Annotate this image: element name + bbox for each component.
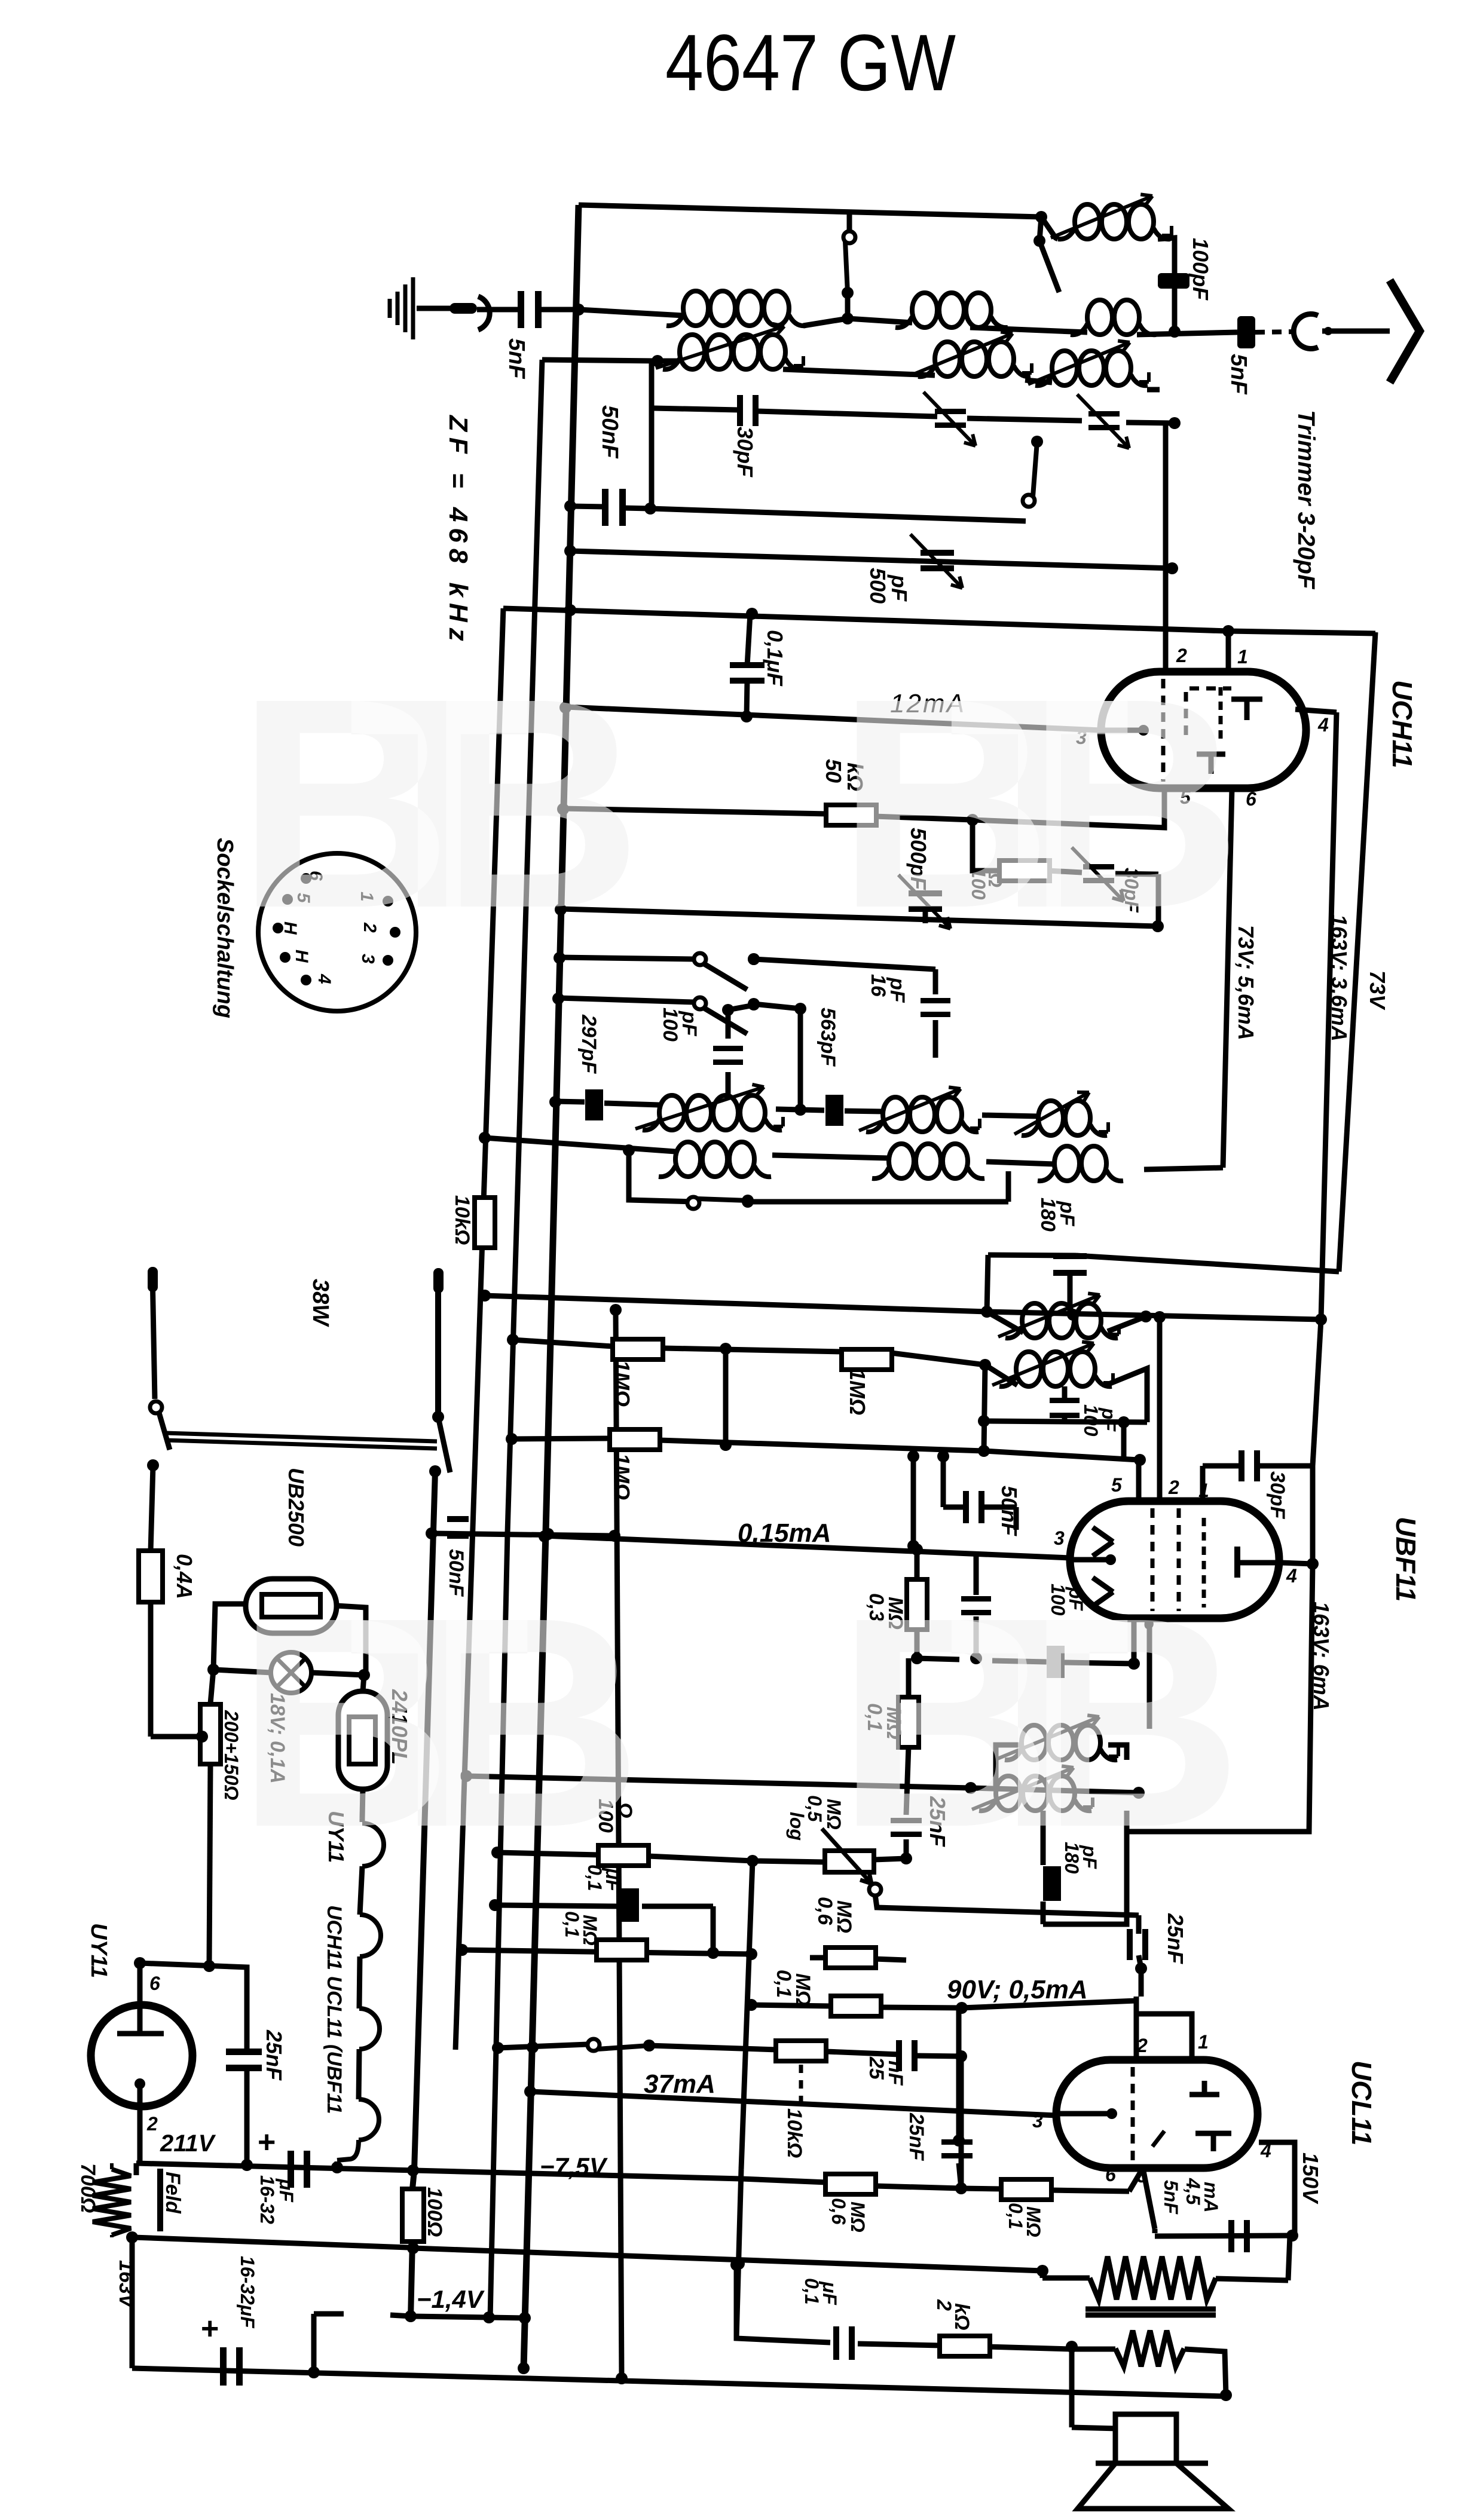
svg-text:163V; 6mA: 163V; 6mA [1309,1602,1334,1711]
svg-text:+: + [200,2311,218,2346]
svg-text:30pF: 30pF [1266,1471,1289,1520]
svg-text:1MΩ: 1MΩ [845,1368,870,1415]
svg-text:UY11: UY11 [86,1923,111,1978]
svg-text:ZF = 468 kHz: ZF = 468 kHz [444,414,473,647]
svg-text:5nF: 5nF [1226,354,1251,395]
svg-text:BTB: BTB [837,636,1232,970]
svg-text:MΩ: MΩ [791,1973,814,2006]
svg-text:163V: 163V [115,2260,137,2310]
svg-text:3: 3 [1054,1527,1065,1549]
svg-text:500: 500 [866,568,890,604]
svg-text:−1,4V: −1,4V [417,2285,485,2313]
svg-text:5nF: 5nF [1160,2180,1182,2215]
svg-text:3: 3 [1032,2110,1043,2132]
svg-text:mA: mA [1200,2182,1222,2213]
svg-text:UCL11: UCL11 [1346,2060,1377,2145]
svg-text:UBF11: UBF11 [1390,1517,1421,1602]
svg-text:211V: 211V [160,2130,216,2157]
svg-text:pF: pF [1056,1201,1078,1227]
svg-text:100Ω: 100Ω [423,2187,446,2237]
svg-text:2: 2 [1136,2035,1148,2056]
svg-text:50nF: 50nF [997,1486,1022,1536]
svg-text:10kΩ: 10kΩ [783,2108,806,2158]
svg-text:5nF: 5nF [504,338,529,379]
svg-text:kΩ: kΩ [950,2303,973,2330]
svg-text:10kΩ: 10kΩ [451,1195,473,1245]
svg-text:MΩ: MΩ [847,2201,869,2233]
svg-text:4: 4 [1317,714,1329,736]
svg-text:MΩ: MΩ [1023,2206,1044,2237]
svg-text:BTB: BTB [237,1555,632,1889]
svg-text:563pF: 563pF [817,1008,839,1067]
svg-text:pF: pF [1098,1407,1120,1432]
svg-text:16-32: 16-32 [256,2175,278,2224]
svg-text:nF: nF [884,2060,907,2086]
svg-text:25nF: 25nF [905,2112,928,2161]
svg-text:1: 1 [1237,646,1248,667]
svg-text:1MΩ: 1MΩ [610,1453,634,1500]
svg-text:μF: μF [819,2281,840,2305]
svg-text:6: 6 [149,1973,160,1994]
svg-text:1MΩ: 1MΩ [610,1360,634,1407]
svg-text:5: 5 [1111,1474,1123,1496]
svg-text:37mA: 37mA [644,2069,715,2099]
svg-text:38W: 38W [308,1279,333,1327]
svg-text:−7,5V: −7,5V [540,2152,608,2181]
svg-text:MΩ: MΩ [833,1900,855,1933]
svg-text:1: 1 [1198,2031,1209,2053]
svg-text:73V; 5,6mA: 73V; 5,6mA [1234,925,1258,1040]
svg-text:pF: pF [678,1011,701,1037]
svg-text:BTB: BTB [237,636,632,970]
svg-text:UB2500: UB2500 [284,1468,308,1547]
svg-text:700Ω: 700Ω [77,2163,99,2213]
svg-text:0,1μF: 0,1μF [763,630,787,687]
svg-text:2: 2 [1168,1477,1179,1498]
svg-text:MΩ: MΩ [579,1915,601,1946]
svg-text:0,6: 0,6 [828,2198,849,2225]
svg-text:Sockelschaltung: Sockelschaltung [212,838,237,1018]
svg-text:log: log [786,1812,808,1841]
svg-text:30pF: 30pF [733,427,757,477]
svg-text:2: 2 [146,2113,158,2135]
svg-text:pF: pF [886,977,909,1003]
svg-text:297pF: 297pF [577,1014,600,1074]
svg-text:16-32μF: 16-32μF [237,2256,258,2329]
svg-text:4: 4 [1286,1565,1297,1587]
svg-text:50nF: 50nF [597,405,622,459]
svg-text:6: 6 [1246,788,1256,810]
svg-text:4: 4 [314,973,334,984]
svg-text:μF: μF [276,2178,297,2203]
svg-text:4647 GW: 4647 GW [665,19,956,108]
svg-text:150V: 150V [1298,2152,1323,2204]
svg-text:163V; 3,6mA: 163V; 3,6mA [1327,914,1351,1042]
svg-text:BTB: BTB [837,1555,1232,1889]
svg-text:25nF: 25nF [262,2029,286,2081]
svg-text:5: 5 [1137,2165,1148,2187]
svg-text:90V; 0,5mA: 90V; 0,5mA [947,1975,1088,2004]
svg-text:pF: pF [887,574,912,602]
svg-text:6: 6 [1105,2164,1116,2185]
svg-text:1: 1 [1198,1480,1209,1501]
svg-text:100pF: 100pF [1188,238,1213,301]
svg-text:Feld: Feld [161,2172,184,2214]
svg-text:0,4A: 0,4A [172,1554,197,1599]
svg-text:25nF: 25nF [1163,1913,1188,1964]
svg-text:0,15mA: 0,15mA [738,1518,831,1548]
svg-text:+: + [257,2125,275,2160]
svg-text:UCH11 UCL11 (UBF11: UCH11 UCL11 (UBF11 [323,1905,345,2114]
svg-text:UCH11: UCH11 [1387,680,1418,768]
svg-text:4: 4 [1260,2140,1271,2161]
svg-text:73V: 73V [1365,970,1390,1011]
svg-text:Trimmer 3-20pF: Trimmer 3-20pF [1293,410,1319,590]
